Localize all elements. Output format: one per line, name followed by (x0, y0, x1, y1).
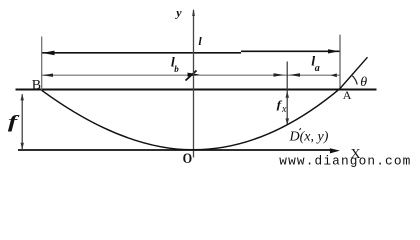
svg-text:a: a (315, 63, 320, 74)
svg-text:θ: θ (360, 75, 367, 90)
svg-text:y: y (174, 6, 182, 20)
svg-text:x: x (281, 104, 287, 115)
svg-text:O: O (183, 150, 193, 166)
svg-text:B: B (32, 78, 41, 93)
svg-text:D(x, y): D(x, y) (289, 130, 329, 145)
svg-text:b: b (174, 64, 179, 74)
svg-text:A: A (343, 88, 352, 102)
svg-text:www.diangon.com: www.diangon.com (279, 154, 411, 169)
